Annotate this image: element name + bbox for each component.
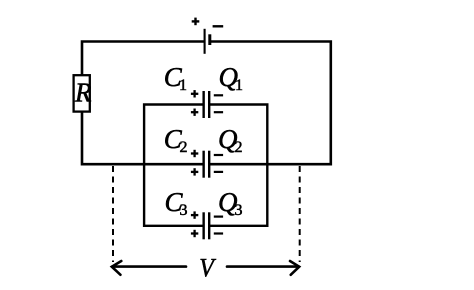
svg-text:3: 3	[235, 202, 243, 219]
svg-text:R: R	[74, 78, 92, 108]
svg-text:2: 2	[235, 139, 243, 156]
svg-text:3: 3	[180, 202, 188, 219]
svg-text:1: 1	[179, 77, 187, 94]
svg-text:1: 1	[235, 77, 243, 94]
svg-text:2: 2	[180, 139, 188, 156]
